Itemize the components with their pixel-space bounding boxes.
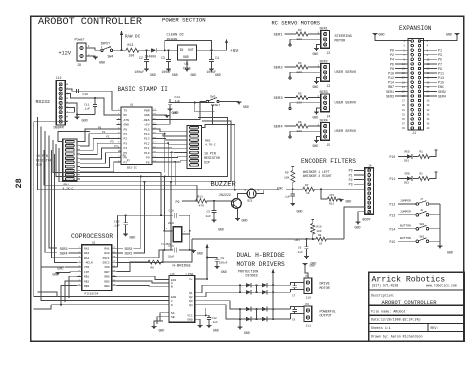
svg-text:P5: P5: [119, 150, 123, 153]
svg-text:R1: R1: [420, 150, 424, 153]
capacitor C11 .1uF: [83, 97, 97, 115]
svg-text:RX: RX: [124, 114, 128, 117]
protection diode rows motor 1: [239, 283, 291, 295]
svg-text:GND: GND: [187, 319, 192, 322]
svg-text:J6: J6: [368, 165, 372, 168]
wire V+ to motor supply rail: [199, 244, 209, 280]
svg-text:C: C: [171, 300, 173, 303]
svg-text:10K: 10K: [317, 230, 322, 233]
svg-text:.1uF: .1uF: [113, 225, 120, 228]
svg-text:C7: C7: [292, 295, 296, 298]
svg-text:R2: R2: [420, 172, 424, 175]
svg-text:ENC: ENC: [277, 186, 283, 190]
node capacitor C2 tap: [146, 49, 148, 51]
svg-text:REV:: REV:: [431, 326, 439, 330]
capacitor C9 100uF: [206, 257, 228, 267]
capacitor C12 .1uF at VCC: [195, 308, 218, 326]
label ENC to coprocessor: [58, 267, 78, 271]
svg-text:BUZZER: BUZZER: [211, 181, 237, 189]
svg-text:GRN: GRN: [405, 172, 410, 175]
svg-text:SER2: SER2: [125, 247, 133, 251]
svg-text:R11: R11: [329, 203, 334, 206]
svg-text:R10: R10: [317, 226, 322, 229]
wire lower bus to H-bridge EN2 C D: [34, 292, 169, 309]
ground at C13: [123, 233, 128, 235]
svg-text:DS2: DS2: [404, 182, 409, 185]
svg-text:EXPANSION: EXPANSION: [399, 25, 432, 32]
ground above J10: [303, 264, 316, 279]
svg-text:www.robotics.com: www.robotics.com: [426, 283, 457, 287]
svg-text:P0: P0: [124, 128, 128, 131]
IC U1 BASIC STAMP II: [117, 104, 157, 170]
resistor R13 100: [126, 43, 139, 58]
svg-text:RB7: RB7: [295, 238, 301, 242]
svg-text:+12V: +12V: [59, 51, 72, 57]
svg-text:Q1: Q1: [189, 292, 193, 295]
svg-text:H-BRIDGE: H-BRIDGE: [173, 265, 192, 269]
svg-text:P11: P11: [438, 72, 444, 76]
svg-text:P6: P6: [123, 155, 127, 158]
svg-text:C9: C9: [221, 257, 225, 260]
svg-text:INT: INT: [84, 271, 89, 274]
svg-text:CLEAN DC: CLEAN DC: [167, 34, 184, 38]
svg-text:2N2222: 2N2222: [219, 193, 231, 197]
svg-text:.1uF: .1uF: [284, 196, 291, 199]
svg-text:DS1: DS1: [404, 160, 409, 163]
svg-text:-RES: -RES: [142, 119, 149, 122]
title block frame: [369, 272, 464, 341]
svg-text:C8: C8: [292, 319, 296, 322]
svg-text:RED: RED: [405, 150, 410, 153]
svg-text:EN2: EN2: [171, 296, 176, 299]
svg-text:RA2: RA2: [84, 248, 89, 251]
svg-text:J4: J4: [327, 115, 331, 119]
capacitor C13 .1uF at VDD: [113, 214, 162, 267]
svg-text:P8: P8: [390, 67, 394, 71]
ground at whisker filter: [290, 203, 295, 205]
svg-text:28: 28: [14, 178, 24, 188]
svg-text:RB4: RB4: [104, 285, 109, 288]
ground at C5: [212, 219, 217, 221]
ground at DB9: [76, 115, 78, 118]
svg-text:GND: GND: [130, 235, 136, 239]
svg-text:BASIC STAMP II: BASIC STAMP II: [118, 86, 168, 93]
svg-text:P2: P2: [349, 178, 353, 182]
svg-text:OUT: OUT: [188, 48, 194, 52]
pushbutton SW3 RESET: [157, 96, 249, 120]
svg-text:1uF: 1uF: [206, 215, 212, 218]
svg-text:J2: J2: [327, 51, 331, 55]
svg-text:J3: J3: [327, 84, 331, 88]
svg-text:GND: GND: [243, 105, 249, 109]
svg-text:P1: P1: [124, 133, 128, 136]
svg-text:GND: GND: [242, 219, 248, 223]
svg-text:GND: GND: [124, 124, 130, 127]
svg-text:P15: P15: [390, 240, 396, 244]
capacitor C7 across motor 1: [291, 283, 305, 298]
svg-text:GND: GND: [313, 116, 319, 120]
svg-text:TX: TX: [124, 109, 128, 112]
wire coprocessor RA4 MCLR to left bus: [52, 150, 78, 262]
wire DB9 pin2 to BS2 TX: [68, 89, 117, 110]
svg-text:P6: P6: [390, 62, 394, 66]
svg-text:Q2: Q2: [189, 296, 193, 299]
svg-text:P7: P7: [438, 62, 442, 66]
svg-text:-MCLR: -MCLR: [84, 262, 93, 265]
svg-text:GND: GND: [313, 52, 319, 56]
svg-text:C14: C14: [175, 96, 181, 99]
connector J9 power input: [59, 38, 91, 69]
svg-text:J9: J9: [77, 64, 81, 68]
svg-text:OUTPUT: OUTPUT: [320, 315, 332, 319]
svg-text:P7: P7: [127, 159, 131, 162]
svg-text:OSC2: OSC2: [103, 262, 110, 265]
svg-text:P3: P3: [110, 140, 114, 143]
svg-text:P9: P9: [176, 200, 180, 204]
svg-text:P12: P12: [390, 203, 396, 207]
svg-text:GND: GND: [355, 226, 361, 230]
svg-text:C6: C6: [298, 247, 302, 250]
diode D4 1N4000: [145, 48, 157, 59]
svg-text:GND: GND: [215, 73, 221, 77]
wire D4 to regulator with CLEAN DC node: [157, 49, 178, 51]
wire DB9 pins 7-8 loopback: [68, 108, 75, 113]
svg-text:P4: P4: [124, 147, 128, 150]
svg-text:C16: C16: [169, 210, 174, 213]
svg-text:R5: R5: [298, 93, 302, 96]
svg-text:J1: J1: [412, 131, 416, 135]
svg-text:SER2: SER2: [438, 90, 446, 94]
svg-text:RB2: RB2: [84, 280, 89, 283]
resistor R2 470: [413, 172, 437, 181]
label 10 PIN RESISTOR SIP left: [36, 154, 52, 167]
svg-text:P12: P12: [388, 76, 394, 80]
svg-text:R8: R8: [318, 234, 322, 237]
svg-text:.1uF: .1uF: [211, 321, 218, 324]
node ENC on whisker wire: [277, 186, 303, 190]
svg-text:ENC: ENC: [438, 85, 444, 89]
svg-text:INPUT: INPUT: [101, 42, 111, 46]
svg-text:P14: P14: [388, 81, 394, 85]
svg-text:USER SERVO: USER SERVO: [335, 130, 357, 134]
resistor R6 1K on RB7 net: [116, 239, 192, 272]
wire J6 lower pins to RB7 filter: [344, 207, 365, 239]
ground at C9: [215, 266, 220, 268]
ground at J6: [355, 212, 365, 230]
label 10 PIN RESISTOR SIP right: [204, 152, 220, 165]
connector J12 DB9 serial port: [54, 76, 69, 131]
svg-text:WHISKER 2 RIGHT: WHISKER 2 RIGHT: [303, 174, 332, 178]
svg-text:+5V: +5V: [144, 124, 150, 127]
IC U3 L298 dual H-bridge: [169, 272, 199, 322]
ground at Q1 emitter: [235, 218, 240, 220]
svg-text:J8: J8: [420, 209, 424, 212]
svg-text:GND: GND: [197, 252, 203, 256]
svg-text:Date:12/28/1998 @2:24:24p: Date:12/28/1998 @2:24:24p: [371, 318, 420, 322]
ground at C4: [209, 68, 214, 70]
svg-text:POWER SECTION: POWER SECTION: [162, 17, 206, 24]
svg-text:P0: P0: [349, 169, 353, 173]
svg-text:P8: P8: [146, 161, 150, 164]
svg-text:RB7: RB7: [104, 271, 109, 274]
svg-text:J11: J11: [306, 324, 312, 327]
svg-text:SER4: SER4: [438, 94, 446, 98]
buzzer BZ1: [245, 189, 266, 203]
svg-text:P0: P0: [390, 49, 394, 53]
svg-text:RESET: RESET: [211, 104, 220, 107]
svg-text:RESISTOR: RESISTOR: [204, 156, 220, 160]
svg-text:BODY: BODY: [363, 219, 371, 223]
svg-text:P2: P2: [106, 136, 110, 139]
svg-text:ENCODER FILTERS: ENCODER FILTERS: [301, 158, 356, 165]
ground at C2: [144, 68, 149, 70]
svg-text:P10: P10: [388, 72, 394, 76]
svg-text:100uF: 100uF: [162, 70, 172, 74]
svg-text:RA0: RA0: [104, 252, 109, 255]
svg-text:+5V: +5V: [230, 48, 239, 54]
svg-text:GND: GND: [446, 33, 452, 37]
node +5V power arrow: [225, 39, 239, 54]
svg-text:BUTTON: BUTTON: [400, 237, 411, 240]
svg-text:C4: C4: [215, 56, 219, 60]
svg-text:P2: P2: [124, 138, 128, 141]
capacitor C6 .1uF: [296, 239, 309, 257]
svg-text:COPROCESSOR: COPROCESSOR: [71, 233, 113, 240]
labels SER2 SER1 from coprocessor: [116, 176, 145, 256]
ground at C6: [304, 256, 309, 258]
wire L298 GND pin: [195, 319, 200, 325]
svg-text:BUTTON: BUTTON: [400, 224, 411, 227]
svg-text:470: 470: [329, 194, 334, 197]
svg-text:R9: R9: [285, 172, 289, 175]
svg-text:C13: C13: [114, 220, 120, 223]
svg-text:SW3: SW3: [210, 96, 216, 99]
wire J9 pin2 to ground: [86, 55, 96, 57]
connector J6 BODY: [363, 165, 374, 223]
svg-text:C5: C5: [207, 211, 211, 214]
jumper J7 on P12: [390, 198, 441, 207]
svg-text:SA: SA: [171, 312, 175, 315]
resistor network RN2 10 pin SIP: [187, 105, 236, 191]
svg-text:RA3: RA3: [84, 252, 89, 255]
svg-text:R6: R6: [151, 266, 155, 269]
svg-text:DIODES: DIODES: [246, 275, 258, 279]
capacitor C10: [77, 89, 89, 96]
svg-text:RB1: RB1: [84, 276, 89, 279]
svg-text:20pF: 20pF: [168, 222, 175, 225]
capacitor C17 .1uF whisker filter: [284, 189, 295, 203]
svg-text:Power: Power: [75, 38, 85, 43]
svg-text:P4: P4: [114, 145, 118, 148]
svg-text:GND: GND: [172, 73, 178, 77]
wire bus BS2 P0-P7 to RN1 with net labels: [80, 126, 130, 172]
svg-text:SW2: SW2: [420, 235, 425, 238]
IC U2 PIC16C54 coprocessor: [77, 242, 116, 296]
svg-text:ATN: ATN: [124, 119, 130, 122]
svg-text:1N4000: 1N4000: [145, 55, 157, 59]
svg-text:RC SERVO MOTORS: RC SERVO MOTORS: [272, 21, 321, 27]
svg-text:GND: GND: [447, 251, 453, 255]
node RAW DC: [121, 49, 123, 51]
connector J11 powerful output: [304, 303, 336, 328]
wire SA SB sense pins: [157, 313, 169, 324]
svg-text:V+: V+: [189, 278, 193, 281]
svg-text:P5: P5: [438, 58, 442, 62]
svg-text:J10: J10: [306, 297, 312, 300]
wire R13 to D4: [139, 49, 151, 51]
svg-text:U1: U1: [130, 104, 134, 107]
svg-text:GND: GND: [379, 33, 385, 37]
svg-text:P3: P3: [124, 142, 128, 145]
capacitor C8 across motor 2: [291, 306, 305, 321]
svg-text:SER2: SER2: [274, 66, 284, 70]
servo channel SER2 connector J3: [274, 60, 357, 89]
svg-text:R12: R12: [198, 195, 204, 198]
svg-text:SB: SB: [171, 316, 175, 319]
wire bus BS2 columns down to buses: [164, 133, 177, 186]
svg-text:RB7: RB7: [388, 85, 394, 89]
resistor R8 1K: [316, 234, 344, 245]
sheets and rev row: [371, 326, 438, 330]
wire L298 outputs to protection diodes: [199, 285, 244, 319]
svg-text:IN: IN: [180, 48, 184, 52]
svg-text:SER3: SER3: [60, 247, 68, 251]
svg-text:P1: P1: [438, 49, 442, 53]
ground rail for jumpers and buttons: [438, 204, 453, 255]
svg-text:Drawn by: Aaron Richardson: Drawn by: Aaron Richardson: [371, 334, 422, 338]
svg-text:P11: P11: [390, 177, 396, 181]
svg-text:GND: GND: [159, 329, 165, 333]
svg-text:Q4: Q4: [189, 304, 193, 307]
svg-text:SIP: SIP: [204, 161, 210, 165]
svg-text:GND: GND: [144, 114, 150, 117]
svg-text:SW4: SW4: [108, 55, 114, 59]
svg-text:GND: GND: [183, 55, 189, 59]
svg-text:U4: U4: [185, 63, 189, 67]
protection diode rows motor 2: [239, 307, 291, 327]
svg-text:Q3: Q3: [189, 300, 193, 303]
resistor R12 470: [196, 195, 232, 207]
connector J10 drive motor: [304, 275, 330, 300]
svg-text:RA1: RA1: [104, 248, 109, 251]
svg-text:RA4: RA4: [84, 257, 89, 260]
svg-text:DB9FM: DB9FM: [54, 127, 64, 131]
svg-text:P13: P13: [390, 213, 396, 217]
svg-text:P12: P12: [144, 142, 150, 145]
ground bracket right of J1: [420, 33, 460, 44]
wire bus BS2 P8-P15 to RN2: [157, 129, 188, 162]
capacitor C5 1uF: [206, 200, 217, 220]
capacitor C3 100uF: [161, 49, 171, 74]
svg-text:R13: R13: [128, 43, 134, 47]
section label DUAL H-BRIDGE MOTOR DRIVERS: [237, 252, 286, 268]
svg-text:GND: GND: [150, 73, 156, 77]
wire bus steps down to crystal and P9: [161, 173, 197, 250]
ground at coprocessor VSS: [53, 272, 78, 277]
svg-text:P14: P14: [144, 133, 150, 136]
wire J9 pin1 to switch SW4: [86, 48, 101, 50]
company phone and web: [372, 283, 457, 287]
svg-text:SER4: SER4: [60, 251, 68, 255]
svg-text:BS2-IC: BS2-IC: [127, 167, 137, 170]
svg-text:MOTOR DRIVERS: MOTOR DRIVERS: [237, 261, 286, 268]
ground at crystal: [190, 250, 203, 256]
svg-text:AROBOT CONTROLLER: AROBOT CONTROLLER: [382, 300, 438, 306]
svg-text:GND: GND: [346, 200, 352, 204]
svg-text:4.7K-C: 4.7K-C: [205, 144, 216, 147]
ground at protection diodes: [238, 326, 243, 328]
svg-text:RAW DC: RAW DC: [125, 36, 141, 40]
svg-text:GND: GND: [313, 85, 319, 89]
svg-text:1N4000: 1N4000: [167, 38, 178, 41]
svg-text:GND: GND: [297, 210, 303, 214]
svg-text:100uF: 100uF: [219, 261, 228, 264]
svg-text:MOTOR: MOTOR: [320, 287, 330, 291]
svg-text:RB5: RB5: [104, 280, 109, 283]
svg-text:P15: P15: [438, 81, 444, 85]
svg-text:OSC1: OSC1: [103, 257, 110, 260]
svg-text:C15: C15: [169, 245, 174, 248]
svg-text:P2: P2: [390, 53, 394, 57]
capacitor C4 100uF: [207, 49, 219, 74]
svg-text:USER SERVO: USER SERVO: [335, 101, 357, 105]
resistor R9 10K pullup: [284, 167, 295, 190]
label whisker notes: [303, 170, 332, 178]
svg-text:R6: R6: [298, 121, 302, 124]
svg-text:P3: P3: [349, 183, 353, 187]
resistor network RN1 10 pin SIP: [58, 132, 90, 191]
svg-text:GND: GND: [218, 228, 224, 232]
svg-text:P4: P4: [390, 58, 394, 62]
button SW1 on P14: [390, 223, 441, 232]
wire BS2 GND pin to ground: [157, 114, 168, 116]
wire coprocessor RB6 RB5 RB4 to H-bridge: [116, 276, 169, 286]
svg-text:P13: P13: [144, 138, 150, 141]
switch SW4: [101, 42, 114, 59]
svg-text:.1uF: .1uF: [83, 108, 90, 111]
svg-text:J12: J12: [56, 76, 62, 80]
wire long ENC bus to encoder section: [37, 117, 279, 190]
svg-text:B: B: [171, 286, 173, 289]
svg-text:J5: J5: [327, 143, 331, 147]
svg-text:20pF: 20pF: [168, 256, 175, 259]
resistor R11 470 to ground: [321, 189, 351, 205]
svg-text:Description:: Description:: [371, 293, 395, 297]
svg-text:RB6: RB6: [104, 276, 109, 279]
svg-text:C10: C10: [83, 93, 89, 96]
svg-text:SER4: SER4: [274, 125, 284, 129]
ground bracket left of J1: [373, 33, 412, 44]
svg-text:SER1: SER1: [125, 251, 133, 255]
svg-text:WHISKER 1 LEFT: WHISKER 1 LEFT: [303, 170, 330, 174]
svg-text:C3: C3: [161, 56, 165, 60]
capacitor C2 100uF: [135, 50, 149, 74]
svg-text:GND: GND: [191, 73, 197, 77]
wire U4 output to +5V: [197, 49, 227, 51]
svg-text:VSS: VSS: [84, 266, 89, 269]
svg-text:U2: U2: [92, 242, 96, 245]
svg-text:100uF: 100uF: [135, 70, 145, 74]
voltage regulator U4 7805: [178, 45, 197, 72]
svg-text:C12: C12: [212, 317, 217, 320]
svg-text:D: D: [171, 304, 173, 307]
svg-text:GND: GND: [99, 62, 105, 66]
wire R7 to connector J6: [315, 188, 365, 190]
jumper J8 on P13: [390, 209, 441, 218]
servo channel SER3 connector J4: [274, 91, 357, 120]
svg-text:10K: 10K: [284, 177, 290, 180]
button SW2 on P15: [390, 235, 441, 244]
